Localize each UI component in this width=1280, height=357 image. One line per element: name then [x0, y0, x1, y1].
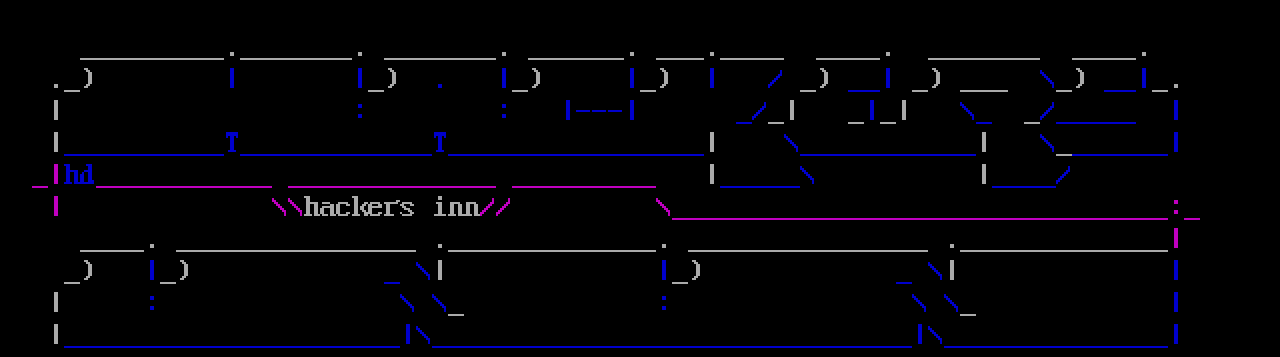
blue base slope 2 [928, 262, 942, 280]
roof dot A [230, 52, 234, 56]
magenta rail 1 [96, 186, 272, 188]
title text hackers [304, 196, 414, 216]
blue dot [438, 84, 442, 88]
roof dot B [358, 52, 362, 56]
blue floor 1 [64, 154, 224, 156]
magenta rail 3 [512, 186, 656, 188]
roof line segment D [528, 58, 624, 60]
ledge dot D [950, 244, 954, 248]
ledge line B [176, 250, 416, 252]
pillar cap 1 [54, 68, 92, 92]
pillar post 4 [630, 68, 634, 88]
gray post f [982, 164, 986, 184]
base colon 1 [150, 296, 154, 310]
blue eave 1 [960, 102, 992, 124]
T column 1 [226, 132, 238, 152]
blue floor 4 [800, 154, 976, 156]
blue rail 1 [720, 186, 800, 188]
gray post e [710, 164, 714, 184]
blue slope 3 [800, 166, 814, 184]
gray post d [982, 132, 986, 152]
roof line segment A [80, 58, 224, 60]
blue slope 2 [1040, 134, 1054, 152]
gray post a [848, 122, 864, 124]
base backslash 2 [432, 294, 446, 312]
roof line segment E [656, 58, 704, 60]
base post 2 [662, 260, 666, 280]
blue ground 1 [64, 346, 400, 348]
base backslash 3 [912, 294, 926, 312]
magenta post [1174, 228, 1178, 248]
ledge dot C [662, 244, 666, 248]
pillar cap 5 [800, 68, 828, 92]
blue base slope 1 [416, 262, 430, 280]
blue ground post 2 [918, 324, 942, 344]
blue slope 4 [1056, 166, 1070, 184]
blue base ledge 2 [896, 282, 912, 284]
blue post [870, 100, 874, 120]
roof dot E [710, 52, 714, 56]
blue step 1 [736, 102, 766, 124]
left wall upper [54, 100, 58, 120]
gray base ledge 2 [960, 314, 976, 316]
colon 2 [502, 104, 506, 118]
roof dot C [502, 52, 506, 56]
window |---| [566, 100, 634, 120]
blue rail 2 [992, 186, 1056, 188]
right wall lower a [1174, 260, 1178, 280]
gray post b [880, 100, 906, 124]
blue floor 3 [448, 154, 704, 156]
left wall base [54, 292, 58, 312]
base cap 1 [64, 260, 92, 284]
roof line segment G [816, 58, 880, 60]
base backslash 4 [944, 294, 958, 312]
ledge line C [448, 250, 656, 252]
blue ground 3 [944, 346, 1168, 348]
blue ground 2 [432, 346, 912, 348]
blue eave 2 [1040, 102, 1054, 120]
blue backslash [1040, 70, 1054, 88]
gray post c [710, 132, 714, 152]
magenta rail start [32, 164, 58, 188]
gray sill [1056, 154, 1072, 156]
magenta colon [1174, 200, 1178, 214]
gray step 2 [1024, 122, 1040, 124]
blue ground post 1 [406, 324, 430, 344]
roof line segment I [1072, 58, 1136, 60]
roof line segment F [720, 58, 784, 60]
right wall mid [1174, 132, 1178, 152]
gray ledge [960, 90, 1008, 92]
gray base ledge 1 [448, 314, 464, 316]
magenta backslash [656, 198, 670, 216]
base post 1 [150, 260, 154, 280]
blue slash [768, 70, 782, 88]
signature hd [64, 164, 94, 184]
pillar post 3 [502, 68, 506, 88]
pillar cap 6 [912, 68, 940, 92]
blue base ledge 1 [384, 282, 400, 284]
gray base post b [950, 260, 954, 280]
ledge dot B [438, 244, 442, 248]
base cap 2 [160, 260, 188, 284]
pillar post 5 [710, 68, 714, 88]
base backslash 1 [400, 294, 414, 312]
roof line segment H [928, 58, 1040, 60]
magenta rail 4 [672, 218, 1168, 220]
blue ledge 2 [1104, 68, 1146, 92]
roof dot D [630, 52, 634, 56]
left wall mid [54, 132, 58, 152]
left wall lower [54, 196, 58, 216]
ledge line A [80, 250, 144, 252]
gray ledge end [1152, 84, 1178, 92]
roof dot G [1142, 52, 1146, 56]
colon 1 [358, 104, 362, 118]
blue floor 2 [240, 154, 432, 156]
roof dot F [886, 52, 890, 56]
base colon 2 [662, 296, 666, 310]
roof line segment C [384, 58, 496, 60]
roof line segment B [240, 58, 352, 60]
pillar cap 3 [512, 68, 540, 92]
magenta rail 2 [288, 186, 496, 188]
title backslashes [272, 198, 302, 216]
pillar post 2 [358, 68, 362, 88]
gray base post a [438, 260, 442, 280]
right wall lower b [1174, 292, 1178, 312]
ledge line D [688, 250, 928, 252]
blue floor 5 [1072, 154, 1168, 156]
pillar post 1 [230, 68, 234, 88]
right wall foot [1174, 324, 1178, 344]
ledge line E [960, 250, 1168, 252]
ledge dot A [150, 244, 154, 248]
blue slope 1 [784, 134, 798, 152]
pillar cap 7 [1056, 68, 1084, 92]
blue eave rail [1056, 122, 1136, 124]
left wall foot [54, 324, 58, 344]
title slashes [480, 198, 510, 216]
T column 2 [434, 132, 446, 152]
base cap 3 [672, 260, 700, 284]
title text inn [434, 196, 480, 216]
pillar cap 2 [368, 68, 396, 92]
magenta rail end [1184, 218, 1200, 220]
right wall upper [1174, 100, 1178, 120]
gray step 1 [768, 100, 794, 124]
pillar cap 4 [640, 68, 668, 92]
blue ledge 1 [848, 68, 890, 92]
